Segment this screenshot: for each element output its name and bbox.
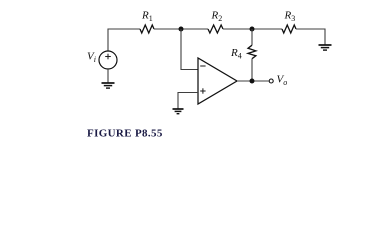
svg-text:Vi: Vi: [87, 51, 96, 65]
svg-text:Vo: Vo: [277, 74, 288, 88]
node: junction dot at inverting branch: [179, 27, 184, 32]
resistor R3: [282, 25, 296, 33]
ground (right, after R3): [319, 45, 332, 50]
svg-text:R3: R3: [284, 10, 296, 24]
resistor R1: [140, 25, 154, 33]
resistor R2: [208, 25, 223, 33]
ground (under op-amp plus input): [173, 109, 184, 114]
resistor R4 (vertical): [251, 29, 253, 45]
svg-text:FIGURE P8.55: FIGURE P8.55: [87, 128, 163, 140]
svg-text:R1: R1: [141, 10, 153, 24]
wire: op-amp output: [237, 80, 269, 82]
node: junction dot at R4 top: [250, 27, 255, 32]
svg-text:R4: R4: [230, 47, 242, 61]
wire: R1 to R2: [154, 28, 208, 30]
wire: Vi to ground: [107, 69, 109, 83]
op-amp plus pin mark: [200, 88, 205, 93]
wire: top rail from Vi corner to R1: [108, 29, 140, 51]
source Vi: [99, 51, 117, 69]
op-amp minus pin mark: [200, 65, 205, 67]
svg-text:R2: R2: [211, 10, 223, 24]
plus mark inside Vi: [105, 54, 111, 60]
node: output terminal Vo: [269, 79, 273, 83]
node: junction dot at output: [250, 79, 255, 84]
wire: op-amp noninverting input to ground: [178, 93, 198, 110]
wire: junction to op-amp inverting input: [181, 29, 198, 70]
wire: R3 to right ground: [296, 29, 325, 45]
ground (under Vi): [102, 83, 115, 88]
wire: R2 to R3: [223, 28, 282, 30]
op-amp U1: [198, 58, 237, 104]
